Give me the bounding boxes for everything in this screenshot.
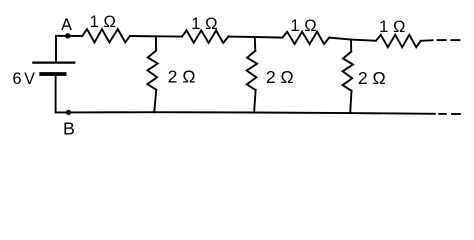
svg-text:1 Ω: 1 Ω (90, 12, 116, 31)
resistor 1 ohm R-series-1 (82, 29, 130, 42)
svg-text:1 Ω: 1 Ω (191, 14, 217, 33)
svg-text:B: B (63, 118, 75, 138)
node A junction dot (65, 33, 70, 38)
wire bottom from node B to right end (68, 112, 435, 114)
wire top-right lead after fourth resistor (421, 39, 433, 42)
wire shunt-1 bottom lead to bottom wire (154, 90, 156, 113)
svg-text:2 Ω: 2 Ω (168, 66, 196, 86)
battery 6V negative plate (short thick) (39, 72, 66, 76)
svg-text:1 Ω: 1 Ω (379, 17, 405, 36)
resistor 1 ohm R-series-4 (376, 35, 421, 47)
wire top between second resistor and third resistor (228, 37, 282, 38)
wire battery negative lead down to node B corner (56, 76, 69, 113)
wire top between third resistor and fourth resistor (329, 38, 376, 41)
wire shunt-2 top lead from top wire to resistor (254, 37, 257, 51)
wire top-right dashed continuation (437, 39, 447, 41)
resistor 2 ohm R-shunt-2 (247, 51, 257, 90)
battery 6V positive plate (long thin) (32, 61, 75, 63)
svg-text:2 Ω: 2 Ω (266, 67, 294, 87)
wire shunt-2 bottom lead to bottom wire (254, 90, 256, 113)
svg-text:1 Ω: 1 Ω (290, 16, 316, 35)
wire top between first resistor and second resistor (130, 35, 182, 38)
wire bottom-right dashed continuation (438, 113, 447, 115)
wire shunt-3 top lead from top wire to resistor (350, 40, 352, 52)
resistor 1 ohm R-series-3 (283, 32, 330, 44)
resistor 1 ohm R-series-2 (182, 30, 228, 43)
svg-text:2 Ω: 2 Ω (358, 68, 386, 88)
resistor 2 ohm R-shunt-3 (343, 52, 353, 91)
wire top-left from battery positive to node A corner (56, 36, 82, 62)
svg-text:6 V: 6 V (12, 70, 35, 88)
wire shunt-3 bottom lead to bottom wire (350, 91, 351, 113)
node B junction dot (66, 110, 71, 115)
resistor 2 ohm R-shunt-1 (147, 51, 157, 90)
wire shunt-1 top lead from top wire to resistor (155, 36, 157, 50)
svg-text:A: A (61, 16, 72, 34)
